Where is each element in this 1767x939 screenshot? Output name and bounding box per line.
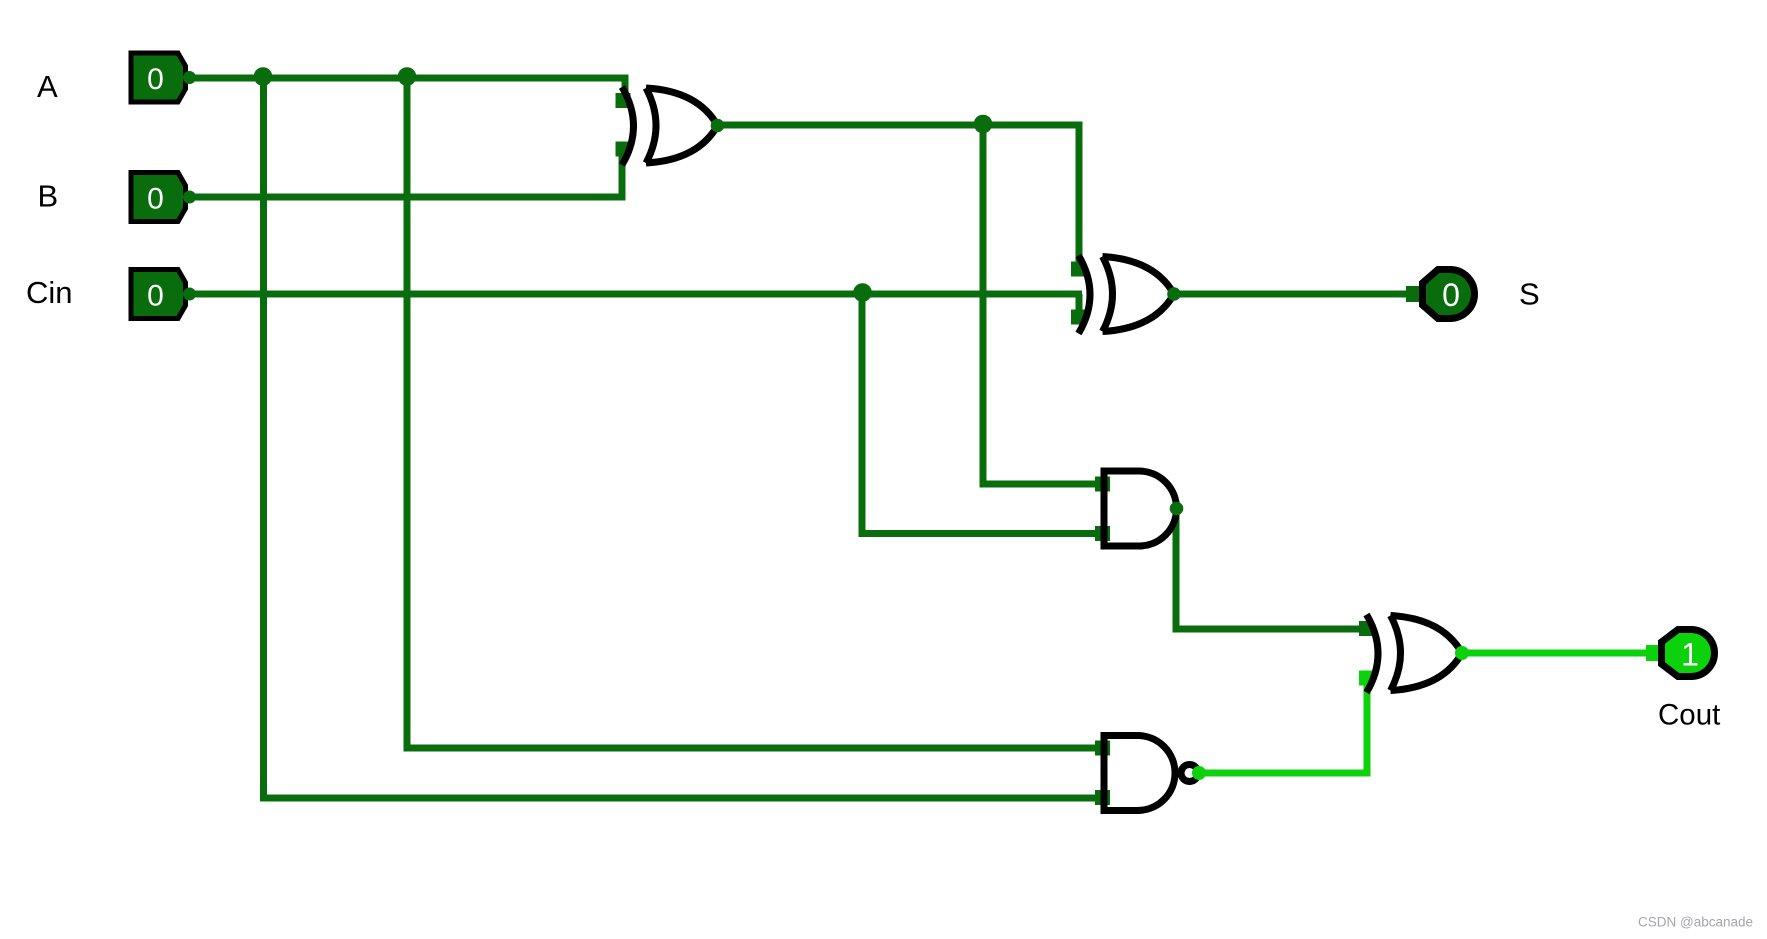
output pin S	[1423, 270, 1475, 319]
node XOR1 input pin upper	[616, 93, 631, 108]
node NAND output dot (bright)	[1192, 766, 1206, 780]
wire A horizontal then down to XOR1 upper input	[187, 78, 625, 100]
wire branch XOR1-out down to AND upper input	[983, 125, 1098, 484]
node AND output dot	[1170, 502, 1184, 516]
node junction on XOR1 output	[974, 115, 993, 134]
node XOR3 input pin lower (bright)	[1359, 671, 1374, 686]
node XOR2 input pin upper	[1071, 262, 1086, 277]
svg-text:0: 0	[1442, 277, 1460, 313]
svg-text:S: S	[1519, 277, 1540, 312]
svg-text:Cout: Cout	[1658, 699, 1720, 732]
node XOR2 input pin lower	[1071, 310, 1086, 325]
node XOR2 output dot	[1167, 287, 1181, 301]
input pin Cin	[131, 270, 196, 319]
xor gate XOR1 (A xor B)	[622, 87, 718, 165]
node AND input pin lower	[1095, 526, 1110, 541]
svg-text:0: 0	[147, 280, 164, 313]
svg-text:1: 1	[1681, 637, 1699, 673]
xor gate XOR3 (Cout)	[1367, 615, 1463, 693]
wire XOR3 output to pin Cout (bright, value 1)	[1462, 650, 1650, 657]
node XOR1 output dot	[711, 119, 725, 133]
svg-text:CSDN @abcanade: CSDN @abcanade	[1638, 915, 1753, 930]
and gate U3	[1104, 471, 1177, 546]
xor gate XOR2 (sum = AxorB xor Cin)	[1079, 256, 1175, 334]
svg-text:Cin: Cin	[26, 275, 73, 310]
wire XOR1 output to XOR2 upper input	[717, 125, 1079, 264]
wire XOR2 output to pin S	[1174, 291, 1408, 298]
wire AND output down then right to XOR3 upper input	[1176, 509, 1372, 630]
wire B horizontal then up to XOR1 lower input	[187, 147, 622, 197]
node XOR1 input pin lower	[616, 142, 631, 157]
node XOR3 output dot (bright)	[1455, 646, 1469, 660]
node NAND input pin upper	[1095, 741, 1110, 756]
nand gate bubble	[1181, 765, 1198, 782]
svg-text:B: B	[38, 179, 59, 214]
wire branch A column1 down to NAND lower input	[264, 78, 1099, 798]
node XOR3 input pin upper	[1359, 621, 1374, 636]
output pin Cout (value 1, bright)	[1662, 630, 1715, 677]
nand gate U4	[1104, 736, 1175, 811]
input pin A	[131, 53, 196, 102]
node junction on A at col1	[254, 67, 273, 86]
node S pin stub	[1406, 286, 1422, 302]
wire Cin long horizontal	[187, 291, 1082, 298]
node NAND input pin lower	[1095, 790, 1110, 805]
svg-text:0: 0	[147, 183, 164, 216]
input pin B	[131, 173, 196, 222]
svg-text:0: 0	[147, 63, 164, 96]
node junction on A at col2	[398, 67, 417, 86]
wire NAND output to XOR3 lower input (bright, value 1)	[1199, 676, 1367, 773]
wire jog down into XOR2 lower input	[1076, 294, 1083, 315]
svg-text:A: A	[37, 69, 58, 104]
node junction on Cin	[853, 283, 872, 302]
node Cout pin stub (bright)	[1646, 645, 1662, 661]
wire branch Cin down to AND lower input	[862, 294, 1098, 534]
wire branch A column2 down to NAND upper input	[407, 78, 1098, 748]
node AND input pin upper	[1095, 477, 1110, 492]
